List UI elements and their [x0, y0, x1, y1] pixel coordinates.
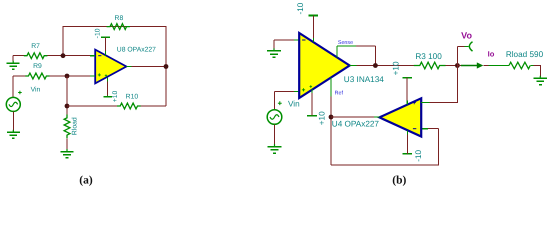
node junction Vo (b) — [455, 63, 460, 68]
ground right (b) — [539, 70, 541, 76]
supply V+ of U8 (+10) — [103, 96, 112, 98]
svg-text:-10: -10 — [414, 149, 423, 161]
wire U4 output to Ref node — [331, 116, 374, 118]
op-amp U4 OPAx227 — [379, 98, 421, 136]
wire Rload to ground corner (b) — [534, 66, 541, 71]
resistor R8 — [107, 24, 130, 30]
ground below Rload (a) — [66, 144, 68, 150]
svg-text:R8: R8 — [115, 15, 124, 22]
supply V- of U8 (-10) — [101, 36, 110, 38]
wire R10 row (a) — [67, 105, 117, 107]
node junction noninverting input (a) — [65, 74, 70, 79]
resistor R10 — [117, 103, 141, 109]
ground at R7 (a) — [12, 56, 14, 62]
resistor Rload (a) — [64, 115, 70, 139]
pin stub inverting input U8 — [90, 55, 95, 57]
svg-text:-10: -10 — [296, 2, 305, 14]
output terminal Vo — [464, 45, 468, 47]
wire inverting input row (b) — [274, 39, 294, 41]
wire top feedback loop (a) — [63, 27, 166, 106]
svg-text:R7: R7 — [31, 43, 40, 50]
wire U4 noninverting input row — [421, 102, 429, 104]
wire noninverting input row (b) — [274, 90, 294, 92]
svg-text:Rload: Rload — [71, 117, 78, 135]
svg-text:R3 100: R3 100 — [415, 52, 442, 61]
wire below source (a) — [12, 111, 14, 132]
wire Vin source drop (a) — [12, 76, 14, 97]
wire inverting input row (a) — [13, 55, 24, 57]
supply V- of U3 (-10) — [309, 15, 319, 17]
node junction R10 row (a) — [65, 104, 70, 109]
svg-text:+10: +10 — [318, 111, 327, 125]
node junction Sense/output (b) — [373, 63, 378, 68]
svg-text:Ref: Ref — [335, 90, 344, 96]
wire bottom feedback loop (b) — [331, 129, 439, 165]
node junction inverting input (a) — [61, 53, 66, 58]
supply V- of U4 (-10) — [403, 153, 413, 155]
svg-text:Vin: Vin — [31, 87, 41, 94]
pin stub output U3 — [350, 65, 357, 67]
wire arrow to Rload (b) — [483, 65, 488, 67]
svg-text:U3 INA134: U3 INA134 — [344, 75, 384, 84]
source Vin (a) — [6, 97, 20, 111]
resistor R9 — [25, 73, 49, 79]
pin Sense of U3 — [336, 46, 338, 58]
svg-text:U8 OPAx227: U8 OPAx227 — [117, 47, 156, 54]
svg-text:Vo: Vo — [461, 31, 472, 41]
wire Sense down to output node — [374, 46, 376, 66]
svg-text:+10: +10 — [392, 61, 401, 75]
supply V+ of U4 (+10) — [402, 77, 412, 79]
op-amp U3 INA134 — [299, 33, 349, 98]
resistor Rload 590 (b) — [488, 65, 509, 67]
svg-text:Io: Io — [488, 49, 495, 58]
svg-text:Sense: Sense — [338, 40, 353, 46]
wire noninverting input row (a) — [13, 75, 25, 77]
wire output to right vertical (a) — [132, 66, 166, 68]
resistor R3 100 — [414, 62, 446, 69]
ground below Vin (b) — [274, 139, 276, 146]
wire Rload to ground (a) — [66, 138, 68, 151]
wire U4 inverting input row — [428, 128, 438, 130]
svg-text:R10: R10 — [126, 94, 139, 101]
pin stub output U8 — [126, 66, 131, 68]
pin stub noninverting input U8 — [90, 75, 95, 77]
ground at U3 inverting input — [273, 40, 275, 49]
pin stub output U4 — [374, 116, 380, 118]
wire R3 to node (b) — [446, 65, 458, 67]
svg-text:(a): (a) — [79, 175, 93, 187]
source Vin (b) — [267, 110, 282, 125]
wire Vo riser — [457, 46, 464, 65]
supply V+ of U3 (+10) — [307, 115, 317, 117]
wire Vin drop (b) — [273, 91, 275, 109]
svg-text:R9: R9 — [33, 63, 42, 70]
wire node column to Rload and R10 (a) — [66, 76, 68, 114]
op-amp U8 OPAx227 — [95, 50, 126, 84]
svg-text:-10: -10 — [94, 28, 101, 38]
pin Ref of U3 — [330, 78, 332, 97]
svg-text:Vin: Vin — [288, 99, 300, 108]
node junction Ref / U4 output — [329, 115, 334, 120]
svg-text:Rload 590: Rload 590 — [506, 50, 544, 59]
svg-text:(b): (b) — [392, 175, 406, 187]
node junction output (a) — [164, 64, 169, 69]
svg-text:U4 OPAx227: U4 OPAx227 — [332, 120, 380, 129]
wire output row to R3 (b) — [357, 65, 415, 67]
resistor R7 — [24, 53, 48, 59]
ground below Vin (a) — [12, 125, 14, 131]
svg-text:+10: +10 — [112, 91, 119, 103]
current arrow Io — [458, 65, 461, 67]
wire below source (b) — [274, 124, 276, 146]
